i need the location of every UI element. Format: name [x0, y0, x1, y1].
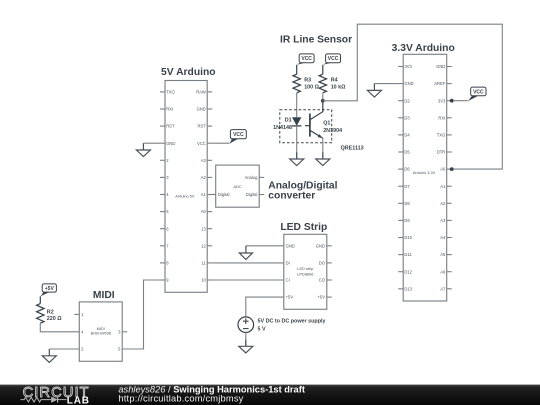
wire VCC to R3: [296, 65, 298, 74]
svg-text:3V3: 3V3: [404, 64, 412, 69]
svg-text:A7: A7: [440, 286, 446, 291]
svg-text:A5: A5: [440, 252, 446, 257]
svg-text:Arduino 5V: Arduino 5V: [175, 193, 195, 198]
wire U1 pin11 to U3 DI: [212, 262, 284, 264]
svg-text:BOB-09598: BOB-09598: [91, 331, 111, 336]
svg-text:GND: GND: [404, 81, 413, 86]
svg-text:D12: D12: [404, 269, 412, 274]
IC U2 ADC converter: [211, 165, 265, 207]
svg-text:5V DC to DC power supply: 5V DC to DC power supply: [258, 319, 326, 325]
svg-text:LED strip: LED strip: [297, 266, 313, 271]
ground at U1 GND: [136, 143, 150, 156]
wire R3 to D1: [296, 93, 298, 118]
IC U3 LED strip LPD8806: [284, 234, 332, 309]
svg-text:A0: A0: [440, 167, 446, 172]
svg-text:100 Ω: 100 Ω: [304, 84, 319, 90]
svg-text:A2: A2: [201, 175, 207, 180]
svg-text:VCC: VCC: [301, 56, 312, 62]
svg-text:ADC: ADC: [233, 184, 241, 189]
ground at U5 GND: [367, 84, 381, 97]
ground at U4 pin2: [42, 349, 56, 362]
svg-text:converter: converter: [268, 191, 315, 202]
wire U1 GND to ground: [143, 142, 160, 144]
svg-text:D7: D7: [404, 184, 410, 189]
net flag VCC at R4: [323, 54, 341, 65]
svg-text:A1: A1: [440, 184, 446, 189]
net flag +5V at R2: [40, 284, 56, 297]
IC U5 3.3V Arduino: [398, 54, 452, 301]
svg-text:LPD8806: LPD8806: [297, 271, 313, 276]
svg-text:D9: D9: [404, 218, 410, 223]
svg-text:D5: D5: [404, 150, 410, 155]
ground at V1: [239, 340, 253, 353]
svg-text:D6: D6: [404, 167, 410, 172]
svg-text:10: 10: [201, 278, 206, 283]
wire D1 to ground: [296, 126, 298, 159]
wire U1 pin10 to U3 CI: [212, 279, 284, 281]
wire U4 pin2 to ground: [49, 348, 79, 350]
wire Q1 emitter to ground: [322, 138, 324, 159]
svg-text:MIDI: MIDI: [93, 290, 115, 301]
label LED Strip title: [280, 222, 327, 233]
wire U3 +5V to supply V1: [246, 297, 284, 317]
label MIDI title: [93, 290, 115, 301]
svg-text:VCC: VCC: [197, 141, 206, 146]
wire R2 to U4 pin4: [40, 323, 79, 332]
label 5V Arduino title: [161, 67, 216, 78]
footer text: [118, 384, 305, 403]
svg-text:Arduino 3.3V: Arduino 3.3V: [413, 170, 436, 175]
svg-text:QRE1113: QRE1113: [341, 146, 364, 152]
svg-text:3V3: 3V3: [438, 98, 446, 103]
svg-text:220 Ω: 220 Ω: [47, 316, 62, 322]
svg-text:D8: D8: [404, 201, 410, 206]
svg-text:5 V: 5 V: [258, 327, 266, 333]
svg-text:DO: DO: [319, 261, 326, 266]
transistor Q1 2N3904: [305, 101, 342, 139]
wire V1 to ground: [245, 333, 247, 347]
svg-text:GND: GND: [197, 107, 206, 112]
wire +5V to R2: [39, 296, 41, 303]
svg-text:D3: D3: [404, 115, 410, 120]
ground at Q1: [316, 152, 330, 165]
svg-text:A0: A0: [201, 209, 207, 214]
wire IR sensor junction to U5 A0: [323, 24, 503, 169]
wire U5 3V3 to net flag: [452, 100, 468, 102]
svg-text:13: 13: [201, 226, 206, 231]
svg-text:D4: D4: [404, 133, 410, 138]
svg-text:CO: CO: [319, 278, 326, 283]
svg-text:2N3904: 2N3904: [323, 128, 342, 134]
resistor R4 10 kOhm: [319, 74, 346, 93]
net flag VCC at R3: [297, 54, 314, 65]
wire U1 A1 to ADC Digital: [212, 194, 216, 196]
svg-text:RAW: RAW: [196, 90, 206, 95]
svg-text:DI: DI: [286, 261, 290, 266]
net flag VCC at U1: [230, 130, 247, 144]
node junction R4-Q1-wire: [321, 99, 325, 103]
svg-text:GND: GND: [286, 243, 295, 248]
svg-text:VCC: VCC: [328, 56, 339, 62]
svg-text:D13: D13: [404, 286, 412, 291]
svg-text:Analog: Analog: [244, 175, 258, 180]
svg-text:LAB: LAB: [67, 395, 90, 405]
ground at U3 GND: [239, 246, 252, 260]
wire VCC to R4: [322, 65, 324, 74]
svg-text:12: 12: [201, 243, 206, 248]
svg-text:TXO: TXO: [166, 90, 175, 95]
node at U5 A0 pin: [450, 167, 454, 171]
svg-text:+5V: +5V: [318, 295, 326, 300]
svg-text:A1: A1: [201, 192, 207, 197]
svg-text:A2: A2: [440, 201, 446, 206]
svg-text:D1: D1: [285, 117, 292, 123]
svg-text:11: 11: [201, 261, 206, 266]
ground at D1: [290, 152, 304, 165]
IC U4 MIDI BOB-09598: [74, 302, 127, 361]
resistor R2 220 Ohm: [37, 304, 63, 324]
svg-text:RST: RST: [166, 124, 175, 129]
svg-text:RXI: RXI: [438, 115, 445, 120]
wire U3 GND to ground: [246, 245, 284, 247]
footer bar: [0, 385, 540, 405]
wire U4 pin5 to U1 pin9: [122, 280, 160, 349]
svg-text:A3: A3: [201, 158, 207, 163]
svg-text:A4: A4: [440, 235, 446, 240]
svg-text:http://circuitlab.com/cmjbmsy: http://circuitlab.com/cmjbmsy: [118, 394, 243, 404]
svg-text:A3: A3: [440, 218, 446, 223]
svg-text:R4: R4: [331, 78, 338, 84]
svg-text:1N4148: 1N4148: [273, 125, 292, 131]
svg-text:GND: GND: [436, 64, 445, 69]
svg-text:10 kΩ: 10 kΩ: [331, 84, 346, 90]
svg-text:Digital: Digital: [218, 192, 230, 197]
label 3.3V Arduino title: [392, 43, 455, 54]
svg-text:IR Line Sensor: IR Line Sensor: [280, 34, 352, 45]
svg-text:Q1: Q1: [323, 121, 330, 127]
net flag VCC at U5: [468, 87, 486, 101]
module outline QRE1113: [280, 110, 364, 152]
svg-text:+5V: +5V: [45, 286, 55, 292]
svg-text:D10: D10: [404, 235, 412, 240]
svg-text:Digital: Digital: [246, 192, 258, 197]
label Analog/Digital converter: [268, 180, 337, 201]
wire R4 to junction: [322, 93, 324, 101]
svg-text:LED Strip: LED Strip: [280, 222, 327, 233]
svg-text:D2: D2: [404, 98, 410, 103]
svg-text:GND: GND: [166, 141, 175, 146]
svg-text:D11: D11: [404, 252, 412, 257]
diode D1 1N4148: [273, 117, 301, 131]
svg-text:R2: R2: [47, 309, 54, 315]
svg-text:RXI: RXI: [166, 107, 173, 112]
svg-text:VCC: VCC: [473, 89, 484, 95]
svg-text:TXO: TXO: [437, 133, 446, 138]
wire U1 VCC to net flag: [212, 142, 229, 144]
node at U5 3V3 pin: [450, 99, 454, 103]
svg-text:3.3V Arduino: 3.3V Arduino: [392, 43, 455, 54]
svg-text:R3: R3: [304, 78, 311, 84]
svg-text:GND: GND: [316, 243, 325, 248]
svg-text:AREF: AREF: [434, 81, 446, 86]
svg-text:DTR: DTR: [437, 150, 446, 155]
svg-text:5V Arduino: 5V Arduino: [161, 67, 216, 78]
voltage source V1 5V DC to DC power supply: [238, 317, 326, 333]
svg-text:CI: CI: [286, 278, 290, 283]
svg-text:+5V: +5V: [286, 295, 294, 300]
resistor R3 100 Ohm: [293, 74, 320, 93]
CircuitLab logo: [21, 385, 90, 405]
svg-text:A6: A6: [440, 269, 446, 274]
label IR Line Sensor: [280, 34, 352, 45]
svg-text:RST: RST: [198, 124, 207, 129]
wire U5 GND to ground: [374, 83, 398, 85]
IC U1 5V Arduino: [160, 81, 212, 293]
svg-text:VCC: VCC: [233, 132, 244, 138]
